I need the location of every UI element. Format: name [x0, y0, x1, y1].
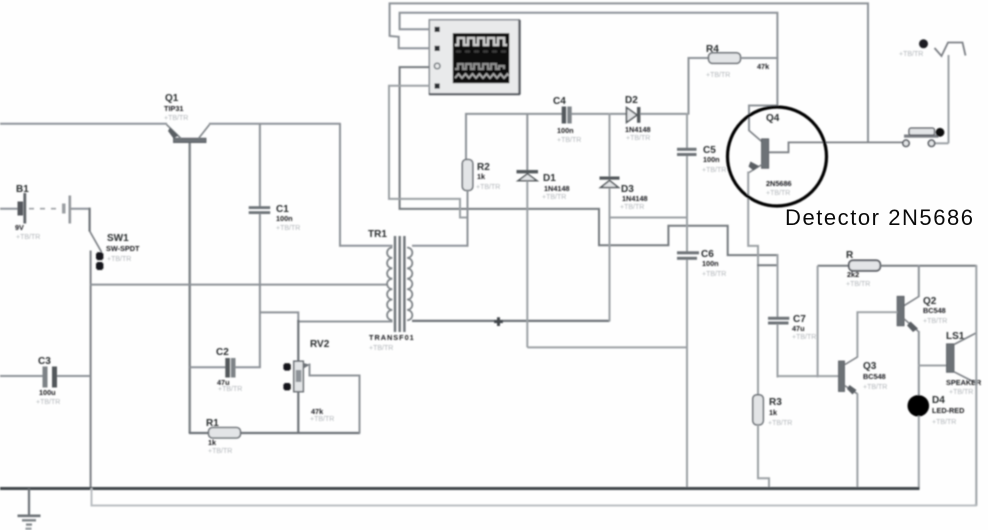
svg-text:D4: D4: [932, 395, 945, 406]
svg-text:+TB/TR: +TB/TR: [949, 389, 973, 396]
svg-text:LS1: LS1: [946, 331, 965, 342]
svg-text:+TB/TR: +TB/TR: [36, 399, 60, 406]
wire down at x340: [339, 123, 341, 247]
svg-text:+TB/TR: +TB/TR: [792, 334, 816, 341]
svg-text:+TB/TR: +TB/TR: [923, 318, 947, 325]
wire scope pin4 to R2: [389, 86, 468, 218]
wire scope pin2 jog: [390, 36, 430, 48]
svg-text:D2: D2: [625, 95, 638, 106]
diode D1 zener: [517, 113, 570, 347]
resistor R4: [689, 44, 778, 115]
resistor R5: [818, 250, 977, 288]
detector circle: [728, 107, 827, 206]
svg-text:47k: 47k: [757, 62, 770, 71]
capacitor C4: [553, 96, 627, 144]
wire scope line B pin1: [400, 13, 778, 59]
svg-text:100n: 100n: [557, 126, 574, 135]
wire center tap y284.6: [90, 284, 388, 286]
svg-text:2k2: 2k2: [847, 270, 859, 279]
light rail: [92, 488, 976, 506]
svg-text:1N4148: 1N4148: [622, 194, 648, 203]
svg-text:BC548: BC548: [863, 372, 886, 381]
wire TR1 secondary top to R2: [412, 245, 469, 247]
wire TR1 secondary bottom: [412, 320, 610, 322]
svg-text:+TB/TR: +TB/TR: [702, 167, 726, 174]
capacitor C6: [677, 249, 726, 489]
capacitor C3: [0, 356, 91, 406]
wire TR1 primary bottom lead: [298, 321, 393, 323]
battery B1: [0, 184, 91, 241]
svg-text:+TB/TR: +TB/TR: [766, 190, 790, 197]
svg-text:9V: 9V: [15, 223, 24, 232]
svg-text:R3: R3: [769, 397, 782, 408]
wire R5 left lead down to Q3 base: [817, 266, 819, 378]
wire D1 bottom to C6 column: [527, 346, 687, 348]
wire SW1 down to rail: [90, 251, 92, 490]
svg-text:C3: C3: [38, 356, 51, 367]
svg-text:1N4148: 1N4148: [625, 125, 651, 134]
transistor Q2: [857, 265, 948, 396]
svg-text:B1: B1: [16, 184, 29, 195]
svg-text:+TB/TR: +TB/TR: [276, 225, 300, 232]
wire C1 branch to RV2 top: [260, 312, 298, 322]
transformer TR1: [368, 229, 415, 352]
svg-text:+TB/TR: +TB/TR: [557, 137, 581, 144]
diode D3 zener: [600, 113, 648, 322]
svg-text:LED-RED: LED-RED: [932, 406, 964, 415]
svg-text:C2: C2: [216, 347, 229, 358]
svg-text:BC548: BC548: [923, 306, 946, 315]
svg-text:47u: 47u: [792, 324, 805, 333]
svg-text:TIP31: TIP31: [164, 104, 183, 113]
capacitor C1: [249, 123, 301, 368]
svg-text:SW-SPDT: SW-SPDT: [106, 244, 140, 253]
svg-text:100u: 100u: [39, 388, 56, 397]
svg-text:1k: 1k: [477, 172, 486, 181]
switch SW1: [90, 208, 140, 270]
svg-text:R1: R1: [206, 418, 219, 429]
oscilloscope display module: [429, 20, 520, 95]
wire Q1 base down to R1: [188, 143, 190, 434]
wire to TR1 primary top: [339, 245, 393, 247]
headphone jack J1: [899, 39, 966, 143]
svg-text:100n: 100n: [276, 214, 293, 223]
svg-text:+TB/TR: +TB/TR: [626, 135, 650, 142]
wire supply top left to Q1: [0, 123, 167, 125]
svg-text:+TB/TR: +TB/TR: [846, 281, 870, 288]
wire right vertical rail LS1: [975, 265, 977, 506]
svg-text:+TB/TR: +TB/TR: [218, 386, 242, 393]
resistor R3: [753, 395, 793, 489]
svg-text:1N4148: 1N4148: [544, 184, 570, 193]
svg-text:+TB/TR: +TB/TR: [16, 234, 40, 241]
svg-text:47k: 47k: [311, 407, 324, 416]
svg-text:+TB/TR: +TB/TR: [542, 194, 566, 201]
wire scope line A to right top: [390, 3, 868, 143]
svg-text:1k: 1k: [769, 408, 778, 417]
svg-text:+TB/TR: +TB/TR: [369, 345, 393, 352]
transistor Q4 detector: [748, 58, 904, 397]
wire W3 emitter to C7: [757, 264, 779, 266]
svg-text:+TB/TR: +TB/TR: [310, 416, 334, 423]
svg-text:+TB/TR: +TB/TR: [620, 204, 644, 211]
svg-text:D1: D1: [543, 173, 556, 184]
svg-text:+TB/TR: +TB/TR: [706, 72, 730, 79]
svg-text:R4: R4: [706, 44, 719, 55]
svg-text:+TB/TR: +TB/TR: [702, 271, 726, 278]
diode D2: [625, 95, 689, 142]
resistor R2: [462, 114, 563, 247]
svg-text:+TB/TR: +TB/TR: [899, 51, 923, 58]
resistor R1: [189, 418, 360, 455]
svg-text:+TB/TR: +TB/TR: [863, 384, 887, 391]
svg-text:2N5686: 2N5686: [766, 179, 792, 188]
svg-text:+TB/TR: +TB/TR: [932, 419, 956, 426]
transistor Q3: [839, 312, 888, 490]
svg-text:+TB/TR: +TB/TR: [107, 256, 131, 263]
speaker LS1: [946, 331, 982, 396]
svg-text:RV2: RV2: [310, 339, 330, 350]
capacitor C2: [189, 347, 261, 393]
svg-text:Q3: Q3: [863, 361, 877, 372]
capacitor C5: [677, 113, 726, 252]
svg-text:C4: C4: [553, 96, 566, 107]
svg-text:SW1: SW1: [107, 233, 129, 244]
svg-text:+TB/TR: +TB/TR: [208, 448, 232, 455]
transistor Q1 TIP31: [164, 93, 210, 143]
svg-text:+TB/TR: +TB/TR: [164, 115, 188, 122]
junction marker node: [494, 317, 503, 326]
wire Q2 emitter to speaker: [918, 365, 947, 367]
wire scope pin3 long run: [400, 67, 778, 255]
svg-text:Detector 2N5686: Detector 2N5686: [785, 205, 975, 230]
svg-text:Q4: Q4: [766, 113, 780, 124]
svg-text:TRANSF01: TRANSF01: [369, 333, 415, 342]
potentiometer RV2: [283, 320, 359, 434]
svg-text:Q1: Q1: [165, 93, 179, 104]
svg-text:+TB/TR: +TB/TR: [768, 420, 792, 427]
svg-text:100n: 100n: [702, 259, 719, 268]
svg-text:TR1: TR1: [368, 229, 387, 240]
jack switch contacts: [903, 128, 949, 147]
wire Q1 collector to C1/TR1: [209, 123, 341, 125]
svg-text:R: R: [846, 250, 854, 261]
wire D3 branch to C5/C6 column: [609, 217, 688, 219]
ground rail dark: [0, 487, 920, 490]
capacitor C7: [768, 254, 816, 378]
svg-text:100n: 100n: [703, 155, 720, 164]
ground: [18, 489, 41, 530]
wire Q3 base from C7: [777, 375, 840, 377]
svg-text:+TB/TR: +TB/TR: [476, 184, 500, 191]
svg-text:1k: 1k: [208, 438, 217, 447]
LED D4: [908, 395, 965, 489]
